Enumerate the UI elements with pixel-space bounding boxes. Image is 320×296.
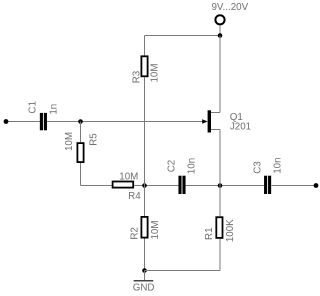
wire R2 bottom to ground node	[144, 239, 146, 271]
power supply circle	[215, 15, 224, 24]
wire bias node down to R5	[80, 122, 82, 143]
svg-text:10M: 10M	[119, 172, 138, 183]
resistor R3	[141, 55, 149, 77]
node gate bias junction	[78, 119, 83, 124]
svg-text:10M: 10M	[64, 132, 75, 151]
wire gate row C1 to Q1 gate	[47, 121, 203, 123]
wire source column	[219, 130, 221, 186]
svg-text:R5: R5	[88, 133, 99, 146]
svg-text:R2: R2	[129, 227, 140, 240]
resistor R2	[141, 216, 149, 239]
node R4 output junction	[142, 183, 147, 188]
svg-text:100K: 100K	[225, 219, 236, 242]
wire R3 bottom to R2 top	[144, 77, 146, 216]
wire C3 to output	[271, 185, 314, 187]
capacitor C3	[264, 176, 271, 194]
resistor R4	[112, 181, 134, 189]
ground bar symbol	[134, 280, 154, 282]
wire gate row left of C1	[6, 121, 40, 123]
svg-text:10n: 10n	[272, 157, 283, 173]
svg-text:10n: 10n	[186, 158, 197, 174]
svg-text:10M: 10M	[149, 63, 160, 82]
ground stub	[144, 271, 146, 281]
wire R1 top to output row	[219, 186, 221, 217]
node source output junction	[218, 183, 223, 188]
svg-text:C3: C3	[252, 161, 263, 174]
resistor R1	[215, 216, 223, 239]
wire R4 to C2	[134, 185, 178, 187]
svg-text:R4: R4	[128, 191, 141, 202]
wire R5 corner to R4	[81, 185, 112, 187]
node ground junction	[142, 268, 147, 273]
wire power rail down to R3	[144, 36, 146, 56]
node input terminal	[4, 119, 9, 124]
node output terminal	[314, 183, 319, 188]
svg-text:9V...20V: 9V...20V	[211, 2, 248, 13]
transistor Q1 gate arrow	[202, 119, 207, 124]
capacitor C2	[178, 176, 185, 194]
wire R1 bottom up	[219, 239, 221, 271]
svg-text:C1: C1	[27, 101, 38, 114]
svg-text:10M: 10M	[150, 220, 161, 239]
svg-text:R3: R3	[131, 70, 142, 83]
wire C2 to C3	[186, 185, 265, 187]
wire source stub	[211, 129, 220, 131]
wire power circle to rail	[219, 25, 221, 35]
wire drain column	[219, 36, 221, 113]
resistor R5	[77, 142, 85, 163]
wire power rail horizontal	[145, 35, 221, 37]
node power junction	[218, 33, 223, 38]
svg-text:GND: GND	[133, 283, 155, 294]
svg-text:C2: C2	[166, 160, 177, 173]
transistor Q1 bar	[208, 110, 211, 132]
wire drain stub	[211, 112, 220, 114]
svg-text:J201: J201	[230, 122, 251, 133]
capacitor C1	[40, 113, 47, 130]
svg-text:1n: 1n	[48, 104, 59, 115]
wire R5 bottom down	[80, 163, 82, 186]
svg-text:R1: R1	[204, 227, 215, 240]
wire ground rail to R1	[145, 270, 221, 272]
